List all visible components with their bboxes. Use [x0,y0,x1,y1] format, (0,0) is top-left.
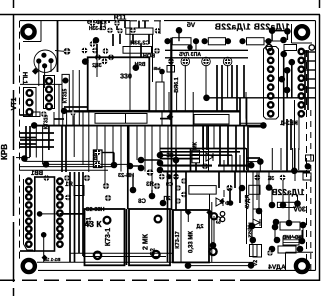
junction dot g1 [111,162,118,169]
wire x181 [180,210,182,262]
border frame bottom dashed [0,279,240,281]
junction dot x190 [187,45,192,50]
label C2-23 mirrored [118,173,134,179]
wire y97 [207,97,316,99]
pad y113b [70,110,75,115]
junction dot x24 [21,155,28,162]
label 6V mirrored [187,21,195,29]
label 2MK vertical [143,233,150,250]
transistor footprint rect [192,150,200,163]
label KT315 vertical [63,88,69,103]
vertical trace comb 2 [168,92,170,111]
XS1 pin 1 [27,90,33,96]
R10 dot right [297,246,304,253]
label 2D mirrored [196,224,203,230]
C4 pad top [211,213,217,219]
junction dot x269 [266,184,273,191]
junction dot g3 [138,157,145,164]
resistor R2 body vertical [94,150,103,168]
pad near HL1 [64,48,71,55]
diode row dot 5 [239,38,245,44]
board outline left dash-dot [19,21,21,262]
pad g15 [154,183,160,189]
wire y157 [16,157,30,159]
svg-text:С1: С1 [87,217,93,225]
pad grid 5 [83,58,89,64]
label 0.33MK vertical [189,231,195,253]
resistor R12v body [253,209,262,228]
svg-text:С2-33Н: С2-33Н [86,207,105,213]
svg-text:V2: V2 [253,260,259,266]
wire g h3 [141,159,160,161]
bus wire y165 [160,165,212,167]
small circle pair [220,212,225,217]
svg-text:Я1: Я1 [65,182,73,188]
label KD vertical [253,260,259,266]
border frame right [319,0,321,8]
pad a1 [90,20,96,26]
C1 pad top [104,217,111,224]
XS1 pin 2 [27,100,33,106]
R8 dot right [300,222,307,229]
junction dot x34 [31,122,38,129]
junction diamond x44 [42,255,48,261]
connector XS2 body [44,76,55,109]
small rect tr1 [306,155,314,161]
mounting hole top-right [296,26,308,38]
pad d1 [202,163,208,169]
small rect tr2 [303,173,311,180]
wire x185 [184,65,186,111]
XP2 wire v1 [283,54,285,126]
small rect y112 [32,112,40,117]
wire x227 [227,65,229,98]
HL1 lead wire 1 [38,61,40,86]
label C2-33N bottom [86,207,105,213]
pad R13 left [117,28,123,34]
junction dot x307 [305,163,311,169]
HL1 lead wire 2 [44,66,46,88]
junction diamond x188 [185,209,191,215]
XP2 wire v3 [291,62,293,98]
C1 pad bottom [94,252,101,259]
pad grid 3 [92,48,98,54]
wire pair y123 [240,122,263,124]
connector XP2 outline [264,47,279,120]
label VV1 mirrored [30,171,43,177]
connector XP2 right pin column [299,49,304,54]
junction dot x242 [239,185,246,192]
svg-text:VТ1: VТ1 [11,97,18,110]
XS2 pin 2 [46,87,52,93]
ringed pad 1 [182,59,188,65]
svg-text:ЗЕ: ЗЕ [267,176,274,182]
wire y256 [83,256,166,258]
corner bracket top-right [291,24,293,43]
svg-text:ВЯН: ВЯН [134,62,145,68]
ring x269 [266,45,272,51]
ringed pad 2 [203,59,209,65]
label diodes2 mirrored [272,188,305,197]
label 2P mirrored [163,196,170,202]
junction dot x272 top [269,27,276,34]
wire y123 pair [249,126,263,128]
edge stub 1 [305,51,316,53]
label Y5 mirrored [153,66,160,71]
pad grid 8 [108,54,114,60]
label HL1 [21,72,28,85]
svg-text:КТ315: КТ315 [63,88,69,103]
label K73-1 vertical [105,228,112,246]
pad above vert resistor [159,69,165,75]
label ADV4 mirrored [268,264,286,271]
pad g12 [103,183,109,189]
capacitor C body (K73) [62,74,69,111]
label R3 mirrored [146,182,154,188]
junction dot x251 [248,162,255,169]
junction dot x289 [286,220,293,227]
ringed pad 3 [225,59,231,65]
small rect comp [167,66,175,73]
junction dot x260 [257,158,264,165]
pad c2 [64,175,70,181]
R7 dot right [294,200,301,207]
svg-text:Vб: Vб [187,21,195,29]
wire y161 [24,160,100,162]
wire x196 [195,41,197,50]
label B1-1 tiny mirrored [43,257,61,262]
border frame top [0,14,320,16]
R2 pad bottom [95,162,101,168]
wire x73 [72,70,74,126]
pad c3 [65,195,71,201]
HL1 key diamond [32,68,39,75]
svg-text:КРВ: КРВ [0,144,9,160]
svg-text:В1-1 1Б: В1-1 1Б [43,257,61,262]
junction dot g9 [149,193,156,200]
diode row dot 1 [164,38,170,44]
label diodes mirrored [214,22,289,32]
pad f1 [267,250,273,256]
wire x287 [286,31,288,40]
edge stub 4 [305,78,316,80]
board outline top [20,20,130,22]
wire g v1 [132,175,134,190]
svg-text:К73-17: К73-17 [175,231,181,248]
pad g11 [84,175,90,181]
label RE mirrored [166,153,174,159]
pad col 3 [181,192,187,198]
pad grid 4 [103,48,109,54]
XS2 pin 4 [46,104,52,110]
junction dot x263 [260,122,267,129]
wire x310 dashed [310,110,312,270]
wire x299 [298,115,300,150]
label 330 [120,73,132,80]
pad col 4 [175,198,181,204]
label C8 mirrored [138,199,146,205]
dot col 1 [249,223,256,230]
junction dot x46 [43,161,50,168]
label 80N mirrored [143,54,155,60]
pad x224 [226,185,232,191]
diode VD3 body [172,38,191,45]
junction dot x230 [228,200,234,206]
relay K1 body [88,57,150,111]
capacitor C2 body [129,209,170,265]
wire x272 [271,31,273,42]
pad grid 7 [95,54,101,60]
junction dot g8 [130,187,137,194]
wire comb horizontal [160,148,246,150]
pad grid 1 [90,41,96,47]
label MK vertical [193,141,199,150]
wire g h1 [102,152,114,154]
label APZ mirrored [179,52,201,58]
junction dot g5 [157,152,164,159]
diode row dot 3 [202,38,208,44]
HL1 pad 2 [36,58,41,63]
XS2 pin 3 [46,95,52,101]
resistor R14 body [123,47,152,54]
svg-text:4УДЯ: 4УДЯ [245,195,251,209]
label R11 [114,15,127,22]
XP1 inner dot 2 [41,232,47,238]
XP2 dot 2 [289,59,296,66]
corner bracket bottom-right [286,251,314,253]
junction dot g6 [157,160,164,167]
label C2-33N mirrored a [88,26,106,32]
junction dot x176 [173,157,180,164]
label U2 mirrored [267,176,274,182]
junction dot g7 [157,167,164,174]
svg-text:R11: R11 [114,15,127,22]
label KE31 mirrored [280,120,298,127]
R7 dot left [269,202,276,209]
svg-text:К73-1: К73-1 [105,228,112,246]
XP2 dot 4 [279,76,286,83]
bus wire y171 [163,170,310,172]
pad g14 [147,169,154,176]
connector XP2 left pin column [268,49,273,54]
svg-text:НL1: НL1 [21,72,28,85]
label 30V mirrored [293,207,306,214]
junction dot x283b [280,202,287,209]
pad y114 [41,111,47,117]
small rect R1 [74,186,84,196]
mounting hole bottom-right [296,260,308,272]
connector XP1 right pin column [57,179,62,184]
label KT315 vertical b [44,114,50,129]
junction dot x179 [176,27,183,34]
junction dot x188 [185,262,192,269]
pad a3 [107,28,113,34]
junction dot x206 [203,95,210,102]
wire pad to HL1 [55,50,64,53]
wire comb bundle [167,171,169,262]
wire XP1 dot2 [43,235,45,262]
svg-text:АДV4: АДV4 [268,264,286,271]
junction dot x251b [248,262,255,269]
wire x179 [178,30,180,41]
diode VD2 symbol [216,198,223,206]
junction dot y176 [166,174,171,179]
wire comb extra [100,21,102,30]
connector XS1 body [24,88,37,117]
XS2 pin 1 [46,78,52,84]
wire y31 [272,30,287,32]
svg-text:0,33 МК: 0,33 МК [189,231,195,253]
junction dot x283 [280,37,287,44]
resistor R13 body [126,28,153,34]
svg-text:1/Да22В: 1/Да22В [272,188,305,197]
wire g h2 [130,165,141,167]
pad c1 [44,175,50,181]
C2 pad bottom [152,251,159,258]
mounting hole bottom-left [23,260,35,272]
capacitor C4 body [173,210,209,262]
C4 dot [210,242,217,249]
resistor R8 body [280,222,300,230]
wire x306 dashed [306,50,308,270]
resistor R10 body [278,246,296,253]
wire comb right [246,148,248,170]
junction dot x276b [273,219,280,226]
R9 dot right [299,238,306,245]
wire vertical x57.5 [57,21,59,72]
HL1 pad 4 [42,63,47,68]
edge stub 5 [305,87,316,89]
svg-text:2Д: 2Д [196,224,203,230]
notch rect left [95,114,147,124]
resistor R6 body [249,185,260,194]
label ZU2 mirrored [92,63,102,69]
board outline right [315,21,317,271]
wire x79 [78,70,80,126]
wire x162 [161,74,163,82]
label 43K [84,219,102,229]
edge stub 3 [305,69,316,71]
label KD522 vertical [247,223,253,238]
XP2 wire v2 [286,70,288,98]
resistor R13v body [253,245,262,258]
wire y58 [165,57,248,59]
pad row 1 [159,174,165,180]
svg-text:С8: С8 [138,199,146,205]
cap pad top [63,78,69,84]
LED HL1 body circle [34,50,56,72]
bus wire y125 [34,125,263,127]
C2 pad top [155,216,162,223]
wire x294 [294,100,296,171]
wire comb horizontal extra [20,137,36,139]
mounting hole top-left [22,26,34,38]
wire y170 [20,169,108,171]
junction dot x294b [291,168,298,175]
ring x311 [309,45,314,50]
wire y265 [188,265,251,267]
label C3 mirrored vertical [217,216,223,224]
wire y253 [70,252,172,254]
label KD4 vertical mirrored [245,195,251,209]
R10 dot left [269,246,276,253]
resistor R5 body [189,186,216,195]
notch divider [125,114,127,124]
label cluster mirrored 1 [282,235,301,241]
HL1 pad 1 [41,53,46,58]
junction dot a [82,58,89,65]
diode VD6 symbol [253,219,260,226]
wire y161 [246,161,260,163]
svg-text:ВВ1: ВВ1 [30,171,43,177]
pad col 2 [175,185,181,191]
resistor R9 body [283,237,299,245]
svg-text:Ы5: Ы5 [153,66,160,71]
label C2-33N mirrored b [130,41,149,47]
pad a2 [114,20,120,26]
connector XP1 left pin column [26,179,31,184]
junction dot x259 [256,208,263,215]
pad g13 [105,195,111,201]
wire x260 [259,162,261,172]
svg-text:НВ-23: НВ-23 [118,173,134,179]
rect comp tr [284,45,297,51]
diode VD4 body [208,38,225,45]
diode VD5 body [247,38,265,45]
dot col 2 [250,237,257,244]
label VYa6.1 vertical mirrored [174,77,180,92]
junction diamond x209 [206,209,212,215]
cap pad bottom [61,108,67,114]
XS1 pin 3 [27,109,33,115]
diode VD symbol [206,153,213,161]
pad a4 [130,28,136,34]
wire y84 [20,83,62,85]
svg-text:Я3: Я3 [146,182,154,188]
pad b1 [154,48,160,54]
junction diamond x222 [219,199,225,205]
wire y50 [165,49,248,51]
connector XP1 outline [24,179,34,250]
svg-text:30V: 30V [293,207,306,214]
XP1 inner dot 1 [37,211,43,217]
board outline bottom [38,269,316,271]
pad e2 [280,175,286,181]
notch rect right [194,115,229,125]
svg-text:КЕ3-1: КЕ3-1 [280,120,298,127]
label C1-F1 mirrored [87,20,107,26]
label KPB margin [0,144,9,160]
R9 dot left [274,237,281,244]
pad grid 6 [102,58,108,64]
wire x206 [205,65,207,98]
label C9 mirrored [166,182,173,188]
label R1 mirrored [65,182,73,188]
wire XP1 dot1 [40,213,60,215]
junction dot b [133,64,140,71]
wire y164 [46,163,130,165]
junction dot g10 [160,200,167,207]
vertical trace comb [35,126,37,158]
XP2 dot 1 [280,51,287,58]
border frame left dashed [13,0,15,296]
wire y41 link [264,40,284,42]
R2 pad top [95,150,101,156]
pad row 2 [173,174,179,180]
capacitor C1 body [85,209,125,265]
wire y166 [20,166,115,168]
svg-text:2 МК: 2 МК [143,233,150,250]
